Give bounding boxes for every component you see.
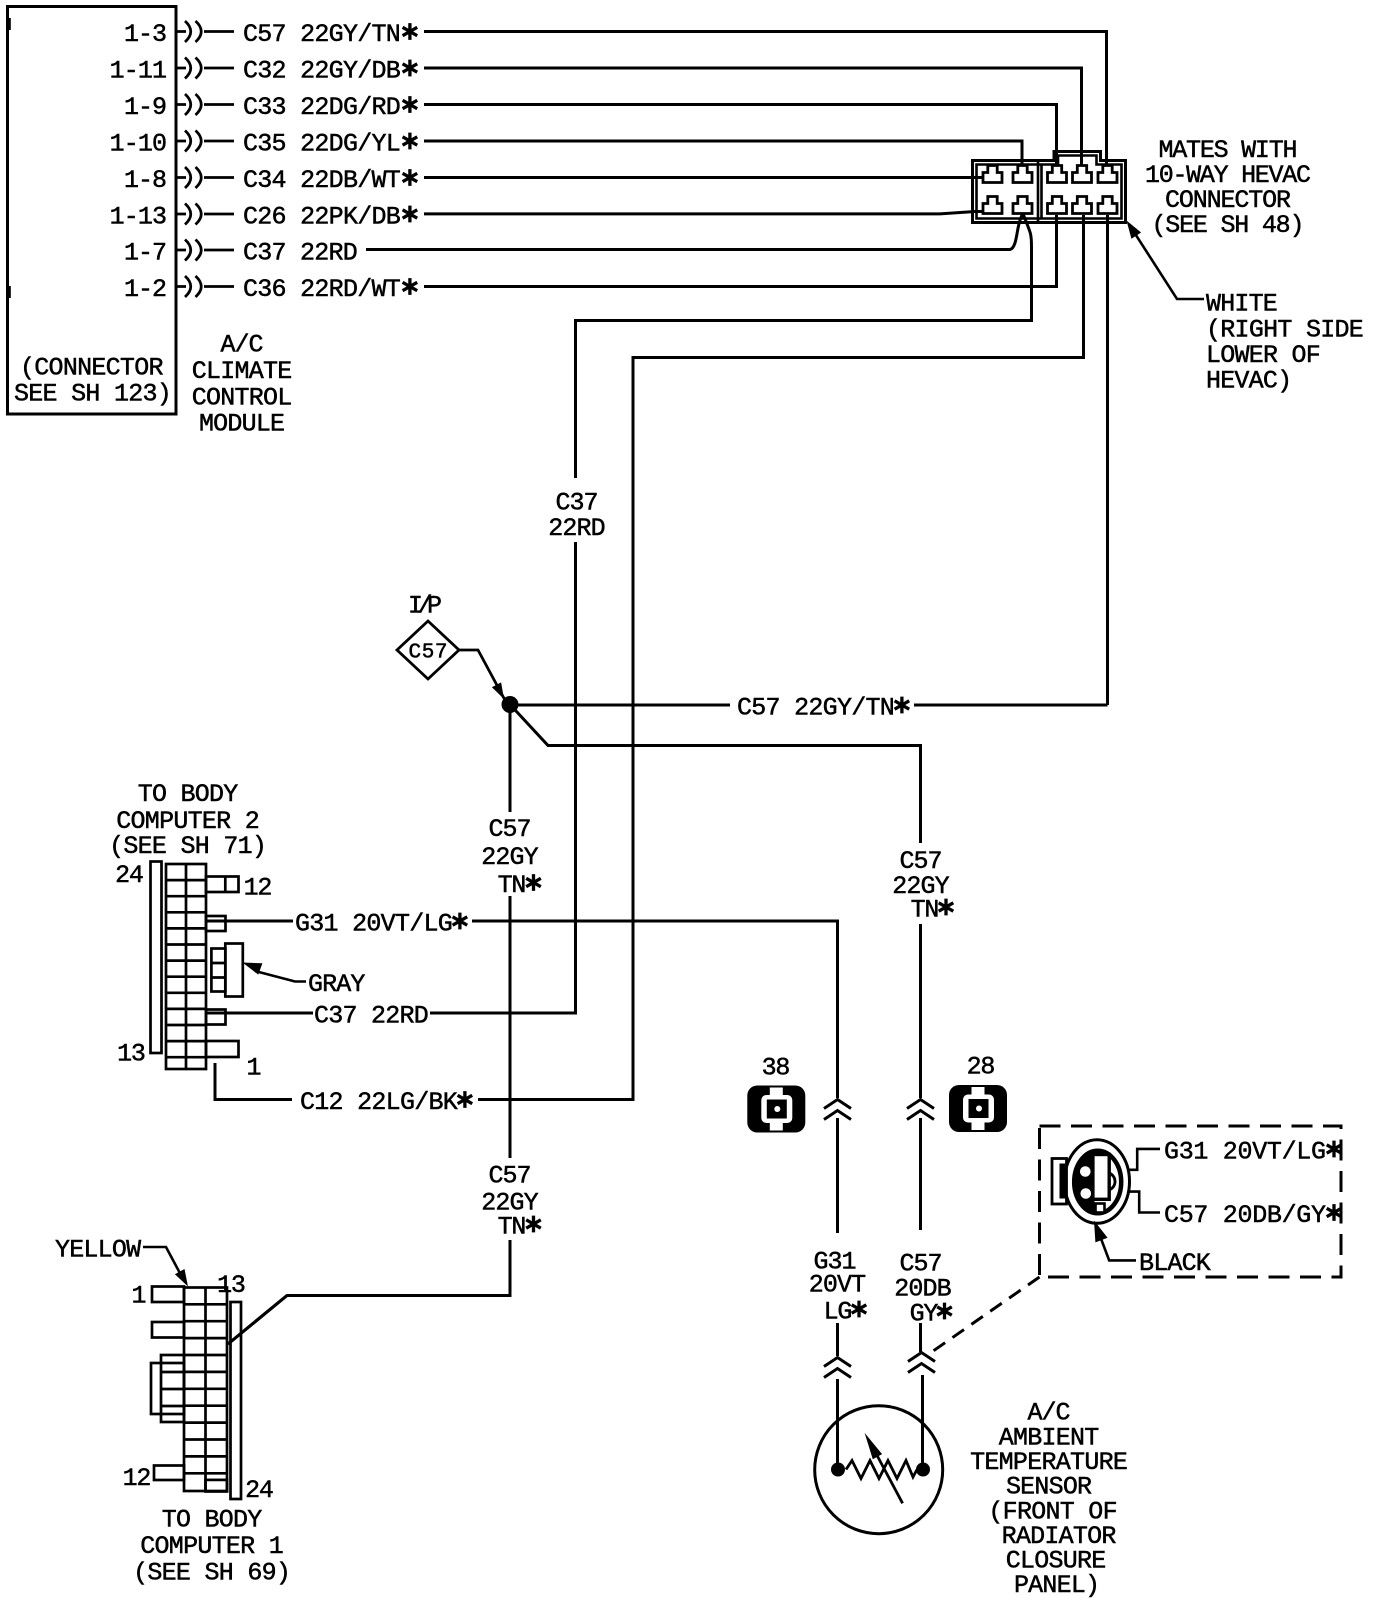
svg-text:1-3: 1-3	[124, 20, 167, 49]
leader line BLACK	[1100, 1236, 1136, 1260]
svg-text:GY: GY	[910, 1300, 939, 1329]
HEVAC top pin R1	[1048, 166, 1067, 183]
svg-text:TO BODY: TO BODY	[162, 1506, 263, 1535]
svg-text:1-8: 1-8	[124, 166, 167, 195]
10-way HEVAC connector - inner outline	[977, 156, 1122, 219]
svg-text:C57: C57	[489, 815, 532, 844]
dashed leader from detail box to sensor wire	[927, 1277, 1040, 1356]
wire C57 22GY/TN* diagonal into body computer 1	[228, 1296, 287, 1345]
wire C12 22LG/BK* stub into body computer 2 bottom	[215, 1063, 292, 1100]
variable-resistor arrow shaft	[872, 1446, 903, 1503]
wire C57 22GY/TN* from module pin 1-3 to HEVAC pin (top R3)	[424, 32, 1107, 169]
svg-text:C26 22PK/DB: C26 22PK/DB	[243, 203, 401, 232]
svg-text:CONTROL: CONTROL	[192, 384, 293, 413]
wire G31 20VT/LG* from body computer 2 to ambient temperature sensor	[207, 921, 838, 1463]
svg-text:TN: TN	[911, 896, 940, 925]
wire C35 22DG/YL* from module pin 1-10 to HEVAC pin (top L2)	[424, 141, 1022, 168]
svg-text:13: 13	[217, 1271, 246, 1300]
svg-text:(SEE SH 71): (SEE SH 71)	[109, 832, 267, 861]
splice break symbol on G31 at sheet boundary	[824, 1100, 851, 1120]
leader to wire label G31 in detail box	[1129, 1149, 1161, 1170]
svg-text:38: 38	[762, 1054, 791, 1083]
wire C57 22GY/TN* from HEVAC bottom pin R3 down to junction	[1106, 215, 1109, 705]
svg-text:GRAY: GRAY	[308, 970, 365, 999]
svg-text:13: 13	[117, 1040, 146, 1069]
connector box: A/C climate control module (14-way)	[8, 7, 177, 415]
in-line connector symbol at module pin 1-9	[176, 94, 234, 115]
svg-text:C37 22RD: C37 22RD	[314, 1002, 429, 1031]
svg-text:MODULE: MODULE	[199, 410, 285, 439]
grommet 38	[747, 1086, 805, 1133]
HEVAC bottom pin R3	[1098, 197, 1117, 214]
in-line connector symbol at module pin 1-10	[176, 131, 234, 152]
svg-text:1-7: 1-7	[124, 239, 167, 268]
svg-text:22RD: 22RD	[548, 514, 605, 543]
HEVAC bottom pin L1	[983, 197, 1002, 214]
svg-text:A/C: A/C	[221, 331, 264, 360]
svg-text:HEVAC): HEVAC)	[1206, 367, 1292, 396]
svg-text:I/P: I/P	[408, 592, 442, 621]
wire C34 22DB/WT* from module pin 1-8 to HEVAC pin (top L1)	[424, 176, 983, 179]
svg-text:C57 22GY/TN: C57 22GY/TN	[737, 694, 895, 723]
connector: to body computer 1 (yellow 24-way)	[151, 1287, 241, 1500]
svg-text:24: 24	[245, 1476, 274, 1505]
HEVAC top pin L2	[1013, 166, 1032, 183]
svg-text:C57 20DB/GY: C57 20DB/GY	[1164, 1201, 1326, 1230]
HEVAC bottom pin R2	[1073, 197, 1092, 214]
wire C37 22RD stub into body computer 2	[207, 1012, 313, 1015]
svg-text:1-2: 1-2	[124, 275, 167, 304]
HEVAC top pin R3	[1098, 166, 1117, 183]
leader to wire label C57 in detail box	[1129, 1192, 1161, 1213]
svg-text:LG: LG	[824, 1298, 853, 1327]
HEVAC connector divider	[1038, 161, 1042, 222]
leader line GRAY	[255, 971, 306, 982]
wire C57 22GY/TN* from junction down to body computer 1	[228, 712, 510, 1344]
svg-text:TN: TN	[498, 1213, 527, 1242]
svg-text:C35 22DG/YL: C35 22DG/YL	[243, 130, 401, 159]
leader line YELLOW	[143, 1247, 182, 1277]
in-line connector symbol at module pin 1-13	[176, 204, 234, 225]
sensor terminal node right	[916, 1463, 930, 1477]
svg-text:C12 22LG/BK: C12 22LG/BK	[300, 1088, 458, 1117]
svg-text:24: 24	[115, 861, 144, 890]
svg-text:G31 20VT/LG: G31 20VT/LG	[1164, 1138, 1326, 1167]
wire C37 22RD from module pin 1-7 to HEVAC pin (bottom L2)	[366, 214, 1023, 250]
svg-text:12: 12	[123, 1464, 152, 1493]
svg-text:28: 28	[967, 1053, 996, 1082]
takeout symbol I/P C57 diamond	[397, 621, 459, 679]
splice break symbol on G31 near sensor	[824, 1358, 851, 1378]
in-line connector symbol at module pin 1-7	[176, 240, 234, 261]
wire C12 22LG/BK* from HEVAC bottom pin R2 to body computer 2	[478, 215, 1084, 1100]
dashed detail box for sensor connector	[1040, 1126, 1342, 1277]
svg-text:22GY: 22GY	[481, 843, 538, 872]
svg-text:(CONNECTOR: (CONNECTOR	[20, 354, 164, 383]
svg-text:1: 1	[246, 1054, 261, 1083]
HEVAC top pin L1	[983, 166, 1002, 183]
svg-text:1-13: 1-13	[110, 203, 167, 232]
svg-text:(SEE SH 69): (SEE SH 69)	[133, 1559, 291, 1588]
in-line connector symbol at module pin 1-2	[176, 276, 234, 297]
wire C36 22RD/WT* from module pin 1-2 to HEVAC pin (bottom R1)	[424, 215, 1057, 287]
svg-text:12: 12	[244, 874, 273, 903]
grommet 28	[949, 1085, 1007, 1132]
svg-text:C37 22RD: C37 22RD	[243, 239, 358, 268]
junction node C57 splice	[502, 696, 519, 713]
arrowhead of WHITE leader pointing at HEVAC connector corner	[1127, 221, 1142, 239]
wire C57 22GY/TN* / 20DB/GY* branch from junction to ambient temperature sensor	[510, 705, 923, 1464]
sensor terminal node left	[831, 1463, 845, 1477]
svg-text:1: 1	[131, 1282, 146, 1311]
wire C33 22DG/RD* from module pin 1-9 to HEVAC pin (top R1)	[424, 105, 1057, 169]
svg-text:PANEL): PANEL)	[1014, 1571, 1100, 1600]
arrowhead of YELLOW leader	[175, 1269, 188, 1287]
svg-text:C57: C57	[489, 1162, 532, 1191]
svg-text:BLACK: BLACK	[1139, 1249, 1211, 1278]
svg-text:G31 20VT/LG: G31 20VT/LG	[295, 910, 453, 939]
wire C26 22PK/DB* from module pin 1-13 to HEVAC pin (bottom L1)	[424, 212, 983, 214]
splice break symbol on C57 near sensor	[908, 1353, 935, 1373]
connector: mates with 10-way HEVAC connector - outer outline	[973, 152, 1126, 223]
svg-text:1-10: 1-10	[110, 130, 167, 159]
svg-text:CLIMATE: CLIMATE	[192, 357, 293, 386]
leader wire from I/P diamond to junction	[459, 650, 506, 702]
wire C32 22GY/DB* from module pin 1-11 to HEVAC pin (top R2)	[424, 68, 1082, 168]
wire C57 22GY/TN* horizontal run to junction	[517, 704, 1108, 707]
connector: to body computer 2 (gray 24-way)	[151, 862, 243, 1070]
svg-text:C34 22DB/WT: C34 22DB/WT	[243, 166, 401, 195]
svg-text:TO BODY: TO BODY	[138, 780, 239, 809]
HEVAC top pin R2	[1073, 166, 1092, 183]
pin stubs on module left edge	[8, 18, 11, 298]
svg-text:(SEE SH 48): (SEE SH 48)	[1152, 211, 1305, 240]
svg-text:TN: TN	[498, 871, 527, 900]
svg-text:SEE SH 123): SEE SH 123)	[14, 380, 172, 409]
arrowhead on I/P leader	[492, 682, 504, 699]
svg-text:COMPUTER 1: COMPUTER 1	[140, 1532, 284, 1561]
svg-text:C33 22DG/RD: C33 22DG/RD	[243, 93, 401, 122]
in-line connector symbol at module pin 1-8	[176, 167, 234, 188]
svg-text:1-11: 1-11	[110, 57, 167, 86]
A/C ambient temperature sensor (variable resistor in circle)	[815, 1406, 943, 1534]
splice break symbol on C57 at sheet boundary	[907, 1100, 934, 1120]
variable-resistor arrowhead	[865, 1433, 883, 1459]
HEVAC bottom pin L2	[1013, 197, 1032, 214]
in-line connector symbol at module pin 1-3	[176, 21, 234, 42]
svg-text:20VT: 20VT	[809, 1271, 866, 1300]
svg-text:C57: C57	[409, 642, 448, 665]
svg-text:1-9: 1-9	[124, 93, 167, 122]
wire C37 22RD branch from HEVAC bottom pin L2 down to body computer 2	[430, 214, 1032, 1014]
in-line connector symbol at module pin 1-11	[176, 58, 234, 79]
svg-text:C57 22GY/TN: C57 22GY/TN	[243, 20, 401, 49]
leader line WHITE	[1133, 231, 1204, 300]
resistor element of ambient temperature sensor	[846, 1461, 917, 1479]
arrowhead of BLACK leader	[1094, 1221, 1108, 1243]
HEVAC bottom pin R1	[1048, 197, 1067, 214]
svg-text:C36 22RD/WT: C36 22RD/WT	[243, 275, 401, 304]
svg-text:C32 22GY/DB: C32 22GY/DB	[243, 57, 401, 86]
arrowhead of GRAY leader	[243, 963, 263, 975]
svg-text:WHITE: WHITE	[1206, 290, 1278, 319]
svg-text:YELLOW: YELLOW	[55, 1236, 141, 1265]
sensor connector (black 2-way round)	[1052, 1140, 1130, 1224]
